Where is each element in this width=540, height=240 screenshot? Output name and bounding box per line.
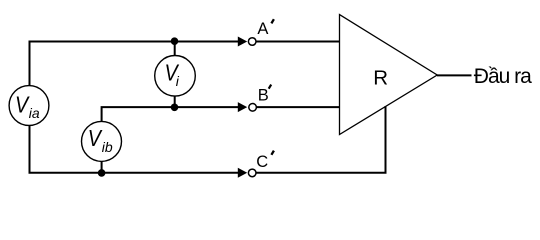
source Vib: meter circle [82, 121, 122, 161]
wire: top rail A' from left corner to arrow [29, 41, 239, 43]
svg-text:C: C [256, 153, 268, 171]
wire: left vertical bus from top rail to bottom rail [29, 42, 31, 173]
svg-text:R: R [373, 66, 388, 89]
source Via: meter circle [9, 86, 49, 126]
arrow into terminal A' [238, 37, 247, 47]
svg-text:ib: ib [102, 139, 113, 155]
node: junction dot on B' rail [171, 104, 179, 112]
terminal C': open circle [248, 169, 256, 177]
wire: B' terminal to amplifier input [256, 106, 339, 108]
wire: C' terminal right then up to amplifier bottom edge [256, 106, 386, 173]
terminal B': open circle [249, 104, 257, 112]
svg-text:A: A [257, 20, 268, 38]
source Vi: meter circle [155, 56, 196, 97]
wire: Vi bottom lead [174, 96, 176, 108]
wire: A' terminal to amplifier input [256, 41, 340, 43]
svg-text:Đầu ra: Đầu ra [474, 65, 532, 88]
wire: bottom rail C' from left corner to arrow [29, 172, 239, 174]
wire: output lead from apex [437, 74, 472, 76]
op-amp R: triangle body [340, 15, 438, 135]
arrow into terminal C' [238, 168, 247, 178]
svg-text:B: B [258, 87, 269, 105]
wire: Vib bottom lead [101, 161, 103, 173]
arrow into terminal B' [238, 102, 247, 112]
node: junction dot on A' rail [171, 37, 179, 45]
svg-text:ia: ia [29, 105, 40, 121]
wire: Vi top lead [174, 42, 176, 57]
wire: B' rail with corner down to Vib top lead [102, 107, 239, 122]
node: junction dot on C' rail [98, 169, 106, 177]
terminal A': open circle [248, 38, 256, 46]
